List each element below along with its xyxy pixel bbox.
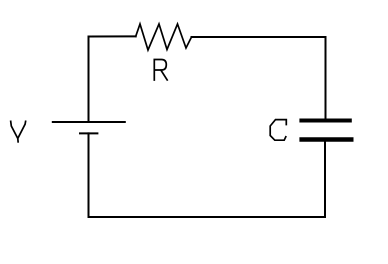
- label R: [154, 60, 167, 81]
- resistor R: [136, 24, 192, 50]
- capacitor C top plate: [299, 119, 351, 123]
- wire top-left segment: [89, 36, 136, 121]
- wire right-lower segment: [324, 142, 326, 217]
- battery V short plate: [80, 132, 97, 134]
- label C: [270, 120, 286, 141]
- wire top-right segment: [192, 37, 326, 119]
- wire left-lower segment: [88, 133, 90, 217]
- battery V long plate: [53, 121, 125, 123]
- label V: [11, 121, 26, 142]
- capacitor C bottom plate: [299, 137, 353, 142]
- wire bottom segment: [89, 216, 325, 218]
